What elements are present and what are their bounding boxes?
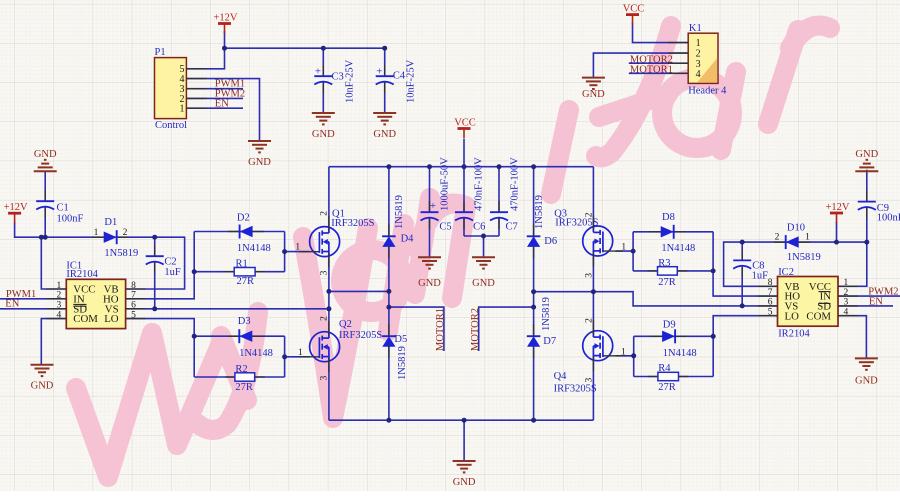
svg-text:27R: 27R <box>235 382 253 393</box>
svg-text:470nF-100V: 470nF-100V <box>473 157 484 211</box>
svg-text:3: 3 <box>844 298 849 308</box>
svg-text:D5: D5 <box>394 334 407 345</box>
svg-text:4: 4 <box>696 69 701 80</box>
svg-text:1N5819: 1N5819 <box>787 252 821 263</box>
svg-text:D2: D2 <box>237 213 250 224</box>
svg-text:1: 1 <box>295 243 300 253</box>
svg-text:D4: D4 <box>401 233 415 244</box>
svg-text:7: 7 <box>768 288 773 298</box>
svg-text:+12V: +12V <box>213 13 237 24</box>
svg-text:3: 3 <box>584 378 594 383</box>
svg-text:+: + <box>376 66 382 78</box>
svg-text:COM: COM <box>806 310 831 322</box>
svg-text:MOTOR1: MOTOR1 <box>630 64 673 75</box>
svg-text:27R: 27R <box>237 276 255 287</box>
svg-text:2: 2 <box>320 211 330 216</box>
svg-text:R4: R4 <box>658 363 671 374</box>
svg-text:8: 8 <box>131 281 136 291</box>
svg-text:1: 1 <box>57 281 62 291</box>
svg-text:1N4148: 1N4148 <box>237 243 271 254</box>
svg-text:C6: C6 <box>473 222 485 233</box>
svg-text:GND: GND <box>34 149 57 160</box>
svg-text:Q2: Q2 <box>339 319 352 330</box>
svg-text:Q4: Q4 <box>554 371 568 382</box>
svg-text:IRF3205S: IRF3205S <box>555 217 598 228</box>
svg-text:+12V: +12V <box>4 202 28 213</box>
svg-text:IRF3205S: IRF3205S <box>331 218 374 229</box>
svg-text:1: 1 <box>805 233 810 243</box>
svg-text:2: 2 <box>57 291 62 301</box>
svg-text:VCC: VCC <box>623 4 645 15</box>
svg-text:+12V: +12V <box>825 202 849 213</box>
svg-text:COM: COM <box>73 313 98 325</box>
svg-text:C4: C4 <box>393 71 406 82</box>
svg-text:IR2104: IR2104 <box>66 269 98 280</box>
svg-text:C2: C2 <box>164 256 176 267</box>
svg-text:IRF3205S: IRF3205S <box>554 384 597 395</box>
svg-text:+: + <box>315 66 321 78</box>
svg-text:10nF-25V: 10nF-25V <box>406 59 417 103</box>
svg-text:GND: GND <box>418 278 441 289</box>
svg-text:2: 2 <box>123 228 128 238</box>
svg-text:5: 5 <box>768 308 773 318</box>
svg-text:GND: GND <box>248 157 271 168</box>
svg-text:2: 2 <box>320 316 330 321</box>
svg-text:1: 1 <box>180 104 185 115</box>
svg-text:R2: R2 <box>235 364 247 375</box>
svg-text:GND: GND <box>31 381 54 392</box>
svg-text:4: 4 <box>57 310 62 320</box>
svg-text:6: 6 <box>768 298 773 308</box>
svg-text:GND: GND <box>582 89 605 100</box>
svg-text:3: 3 <box>584 273 594 278</box>
svg-text:2: 2 <box>775 233 780 243</box>
svg-text:IRF3205S: IRF3205S <box>339 330 382 341</box>
svg-text:1: 1 <box>696 38 701 49</box>
svg-text:D3: D3 <box>238 316 251 327</box>
svg-text:1N5819: 1N5819 <box>534 195 545 229</box>
svg-text:C5: C5 <box>439 222 451 233</box>
svg-text:3: 3 <box>320 376 330 381</box>
svg-text:8: 8 <box>768 278 773 288</box>
svg-text:GND: GND <box>472 278 495 289</box>
svg-text:1: 1 <box>298 348 303 358</box>
svg-text:1: 1 <box>844 278 849 288</box>
svg-text:C7: C7 <box>506 222 518 233</box>
svg-text:K1: K1 <box>689 23 702 34</box>
svg-text:1uF: 1uF <box>752 270 769 281</box>
svg-text:2: 2 <box>844 288 849 298</box>
svg-text:100nF: 100nF <box>57 214 84 225</box>
svg-text:1N5819: 1N5819 <box>104 248 138 259</box>
svg-text:6: 6 <box>131 301 136 311</box>
svg-text:GND: GND <box>373 129 396 140</box>
svg-text:7: 7 <box>131 291 136 301</box>
svg-text:GND: GND <box>855 376 878 387</box>
svg-text:D10: D10 <box>787 222 805 233</box>
svg-text:1N5819: 1N5819 <box>541 297 552 331</box>
svg-text:10nF-25V: 10nF-25V <box>345 59 356 103</box>
svg-text:1: 1 <box>621 243 626 253</box>
svg-text:EN: EN <box>5 299 19 310</box>
svg-text:EN: EN <box>869 296 883 307</box>
svg-text:27R: 27R <box>658 382 676 393</box>
svg-text:1N4148: 1N4148 <box>239 348 273 359</box>
svg-text:D6: D6 <box>544 236 557 247</box>
svg-text:2: 2 <box>584 212 594 217</box>
svg-text:LO: LO <box>104 313 119 325</box>
svg-text:1N5819: 1N5819 <box>394 195 405 229</box>
svg-text:GND: GND <box>453 477 476 488</box>
svg-text:3: 3 <box>57 301 62 311</box>
svg-text:Control: Control <box>155 120 187 131</box>
svg-text:LO: LO <box>785 310 800 322</box>
svg-text:100nF: 100nF <box>877 213 900 224</box>
svg-text:27R: 27R <box>658 277 676 288</box>
svg-text:1N4148: 1N4148 <box>663 348 697 359</box>
svg-text:GND: GND <box>312 129 335 140</box>
svg-text:EN: EN <box>215 99 229 110</box>
svg-text:MOTOR2: MOTOR2 <box>470 308 481 351</box>
svg-text:5: 5 <box>131 310 136 320</box>
svg-text:1: 1 <box>94 228 99 238</box>
svg-text:C3: C3 <box>332 72 344 83</box>
svg-text:MOTOR1: MOTOR1 <box>435 308 446 351</box>
svg-text:1uF: 1uF <box>164 267 181 278</box>
svg-text:1: 1 <box>621 348 626 358</box>
svg-text:1N5819: 1N5819 <box>397 346 408 380</box>
svg-text:C1: C1 <box>57 203 69 214</box>
svg-text:VCC: VCC <box>454 118 476 129</box>
svg-text:D7: D7 <box>543 336 556 347</box>
svg-text:4: 4 <box>844 308 849 318</box>
svg-text:IR2104: IR2104 <box>778 328 810 339</box>
svg-text:R1: R1 <box>236 258 248 269</box>
svg-text:+: + <box>430 200 436 212</box>
svg-text:D8: D8 <box>662 212 675 223</box>
svg-text:IC2: IC2 <box>778 267 794 278</box>
svg-text:Header 4: Header 4 <box>688 86 727 97</box>
svg-text:GND: GND <box>855 149 878 160</box>
svg-text:D1: D1 <box>104 217 117 228</box>
svg-text:1000uF-50V: 1000uF-50V <box>440 157 451 211</box>
svg-text:R3: R3 <box>658 258 670 269</box>
svg-text:P1: P1 <box>155 47 166 58</box>
svg-text:D9: D9 <box>663 319 676 330</box>
svg-text:1N4148: 1N4148 <box>661 243 695 254</box>
svg-text:3: 3 <box>320 270 330 275</box>
svg-text:2: 2 <box>584 318 594 323</box>
svg-text:470nF-100V: 470nF-100V <box>510 157 521 211</box>
